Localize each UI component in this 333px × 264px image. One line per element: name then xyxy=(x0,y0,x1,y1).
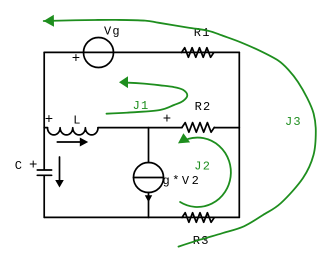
mesh current J1 curve xyxy=(107,83,188,114)
capacitor current arrow xyxy=(59,157,61,180)
resistor R1 xyxy=(182,48,214,58)
capacitor C bottom plate xyxy=(37,174,51,176)
mesh current J3 arrow head xyxy=(44,15,55,27)
wire bottom xyxy=(44,216,239,218)
wire current-source branch lower xyxy=(148,193,150,218)
wire left upper xyxy=(43,52,45,169)
inductor arrow head xyxy=(80,138,88,147)
wire middle right xyxy=(214,127,239,129)
wire left lower xyxy=(43,176,45,218)
resistor R3 xyxy=(182,213,214,223)
capacitor arrow head xyxy=(55,180,64,188)
wire right xyxy=(238,52,240,217)
inductor current arrow xyxy=(57,141,80,143)
mesh current J2 curve xyxy=(180,138,231,207)
resistor R2 xyxy=(182,123,214,133)
capacitor C top plate xyxy=(37,169,51,171)
mesh current J1 arrow head xyxy=(119,76,128,88)
controlled current source G1 arrow head xyxy=(145,195,152,202)
controlled current source G1 diameter line xyxy=(134,177,164,179)
svg-text:+: + xyxy=(72,51,80,67)
svg-text:Vg: Vg xyxy=(104,25,121,39)
controlled current source G1 circle xyxy=(134,163,164,193)
svg-text:+: + xyxy=(163,111,171,127)
svg-text:+: + xyxy=(45,112,53,128)
svg-text:g*V2: g*V2 xyxy=(163,174,202,188)
voltage source Vg xyxy=(84,38,114,68)
mesh current J2 arrow head xyxy=(178,133,190,143)
wire current-source branch upper xyxy=(148,128,150,163)
inductor L xyxy=(48,128,99,135)
wire middle center xyxy=(98,127,182,129)
svg-text:C: C xyxy=(15,159,23,173)
svg-text:+: + xyxy=(29,157,37,173)
wire middle left stub xyxy=(44,127,47,129)
svg-text:J2: J2 xyxy=(194,159,211,173)
mesh current J3 curve xyxy=(44,20,316,247)
svg-text:J1: J1 xyxy=(133,99,150,113)
svg-text:J3: J3 xyxy=(285,115,302,129)
svg-text:L: L xyxy=(73,114,81,128)
wire top xyxy=(44,51,239,53)
svg-text:R2: R2 xyxy=(195,100,212,114)
